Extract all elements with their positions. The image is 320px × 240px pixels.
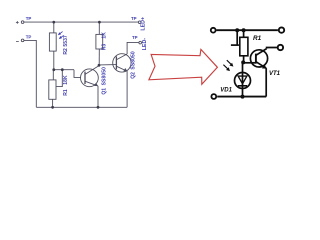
arrow light 1 (59, 32, 62, 34)
arrow light 2 (223, 65, 228, 70)
transistor Q1 emitter (85, 81, 97, 86)
transistor VT1 collector (256, 49, 267, 56)
junction bottom rail VD1 (241, 95, 245, 99)
transistor VT1 base bar (255, 54, 257, 64)
wire bottom rail (217, 96, 266, 98)
transistor Q1 base bar (84, 72, 86, 84)
svg-text:R1: R1 (63, 89, 69, 96)
minus mark T2 (16, 41, 19, 43)
right schematic labels (220, 35, 280, 93)
svg-text:TP: TP (131, 16, 137, 21)
resistor R2 lead top (53, 22, 55, 33)
wire Q2 emitter down to rail (126, 71, 128, 107)
wire R1 wiper arm (56, 70, 62, 87)
diode VD1 cathode bar (238, 85, 247, 87)
svg-text:Q1: Q1 (102, 88, 108, 95)
resistor R1 body (49, 80, 56, 99)
wire stub with bar (236, 30, 238, 45)
junction node wiper (61, 68, 64, 71)
resistor R1 lead bottom (243, 56, 245, 63)
resistor R3 lead top (98, 22, 100, 34)
svg-text:TP: TP (26, 16, 32, 21)
terminal LED+ (138, 21, 141, 24)
wire top rail (216, 29, 278, 31)
wire node (54, 69, 74, 71)
arrow light 2 (60, 35, 63, 38)
resistor R1 lead top (243, 30, 245, 37)
transistor Q1 circle (81, 69, 99, 87)
photodiode light arrows into VD1 (223, 60, 233, 71)
junction bottom rail R1 (51, 106, 54, 109)
svg-text:R2: R2 (63, 48, 69, 55)
wire node to VD1 (242, 62, 244, 85)
wire VD1 to bottom rail (242, 86, 244, 97)
plus mark T1 (16, 21, 19, 24)
resistor R1 lead bottom (52, 99, 54, 107)
wire T2 to bottom rail (24, 40, 36, 107)
transistor Q2 emitter arrowhead (123, 68, 127, 71)
transistor VT1 circle (250, 50, 267, 67)
terminal top-left (211, 28, 216, 33)
svg-text:SS8050: SS8050 (131, 51, 137, 70)
resistor R1 lead top (52, 70, 54, 80)
svg-text:5537: 5537 (63, 35, 69, 47)
transistor Q2 collector (117, 54, 128, 60)
junction node R2/R1 (52, 68, 55, 71)
junction R3/Q1/Q2 base (98, 64, 101, 67)
junction top rail R1 (242, 28, 246, 32)
wire node to Q1 base (74, 70, 81, 78)
transistor Q1 collector (85, 66, 99, 75)
resistor R2 body (49, 33, 56, 51)
wire bottom rail (36, 106, 127, 108)
terminal top-right (279, 27, 284, 32)
terminal T1 (21, 21, 24, 24)
left schematic labels (26, 16, 148, 96)
wire node to VT1 base (244, 62, 256, 64)
svg-text:Q2: Q2 (131, 72, 137, 79)
junction R1/VD1/base node (241, 60, 245, 64)
stub bar (231, 44, 239, 46)
wire Q2 collector to LED- terminal (127, 42, 139, 54)
diode VD1 triangle (238, 76, 247, 84)
resistor R3 body (96, 34, 103, 49)
transistor VT1 emitter arrowhead (262, 65, 267, 69)
resistor R2 lead bottom (53, 51, 55, 70)
wire VT1 collector to terminal (267, 48, 278, 49)
terminal T2 (21, 39, 24, 42)
wire top rail (24, 21, 138, 23)
junction top rail stub (235, 28, 239, 32)
transistor Q2 circle (113, 54, 131, 72)
transistor Q2 emitter (117, 66, 127, 71)
junction bottom rail Q1 emitter (97, 106, 100, 109)
svg-text:R3: R3 (101, 44, 107, 51)
wire node to Q2 base (99, 64, 116, 66)
svg-text:LED+: LED+ (140, 17, 146, 31)
junction top rail R2 (52, 21, 55, 24)
diode VD1 circle (235, 73, 251, 89)
svg-text:TP: TP (132, 35, 138, 40)
transistor Q1 emitter arrowhead (94, 83, 98, 86)
svg-text:SS8050: SS8050 (102, 67, 108, 86)
terminal bottom-left (211, 94, 216, 99)
svg-text:LED-: LED- (142, 38, 148, 51)
terminal collector right (278, 45, 283, 50)
resistor R3 lead bottom (98, 49, 100, 65)
transistor VT1 emitter (256, 62, 266, 68)
red transition arrow (149, 49, 218, 84)
wire Q1 emitter down (97, 86, 99, 107)
svg-text:18K: 18K (63, 75, 69, 85)
terminal LED- (139, 41, 142, 44)
wire VT1 emitter down to rail (265, 68, 267, 96)
arrow light 1 (227, 60, 232, 64)
transistor Q2 base bar (115, 56, 117, 69)
svg-text:1K: 1K (101, 32, 107, 39)
LDR light arrows into R2 (58, 32, 64, 39)
resistor R1 body (240, 37, 248, 56)
svg-text:VD1: VD1 (220, 87, 232, 93)
svg-text:VT1: VT1 (269, 71, 281, 77)
junction top rail R3 (98, 21, 101, 24)
svg-text:R1: R1 (253, 35, 262, 42)
svg-text:TP: TP (26, 34, 32, 39)
